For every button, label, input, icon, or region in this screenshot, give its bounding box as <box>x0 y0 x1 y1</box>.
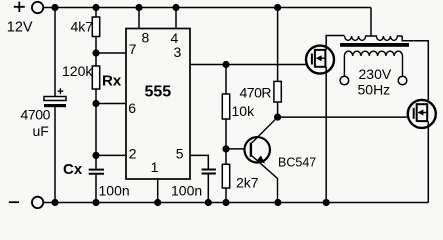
Q3 body arrow <box>421 112 428 114</box>
svg-text:470R: 470R <box>240 85 272 101</box>
wire: 4k7 top lead <box>95 8 97 18</box>
svg-text:50Hz: 50Hz <box>358 81 391 97</box>
svg-text:100n: 100n <box>99 182 130 198</box>
Q2 body arrow <box>319 57 326 59</box>
transformer T1 secondary winding <box>344 51 402 56</box>
plus sign <box>14 2 25 12</box>
node: pin 4 rail <box>172 4 179 11</box>
node A: 4k7/Rx/pin7 <box>92 49 99 56</box>
wire: node A to pin 7 <box>96 52 126 54</box>
svg-text:uF: uF <box>33 123 49 139</box>
wire: left vertical from + terminal to C1 top <box>54 8 56 97</box>
node: 470R top <box>274 4 281 11</box>
wire: 470R bottom to node D <box>277 102 279 117</box>
wire: pin 1 to bottom rail <box>157 179 159 203</box>
svg-text:BC547: BC547 <box>278 156 316 170</box>
Q2 gate bar <box>311 54 313 65</box>
wire: bottom 0V rail <box>44 202 428 204</box>
transistor Q1 BC547 <box>244 117 277 202</box>
Q3 body circle <box>408 100 436 128</box>
node: 10k/2k7/base <box>222 145 229 152</box>
Q3 gate bar <box>413 108 415 119</box>
wire: pin 5 to C3 <box>190 155 208 168</box>
wire: Cx bottom lead <box>95 175 97 203</box>
Q1 emitter <box>252 156 278 203</box>
svg-text:Cx: Cx <box>63 161 83 178</box>
node: C3 bottom <box>205 199 212 206</box>
wire: top +12V rail <box>44 7 372 9</box>
wire: secondary left lead <box>343 56 345 76</box>
svg-text:Rx: Rx <box>102 73 122 90</box>
wire: pin 4 to top rail <box>175 8 177 29</box>
svg-text:230V: 230V <box>359 66 392 82</box>
Q3 drain stub <box>417 103 428 105</box>
terminal secondary right <box>398 76 407 85</box>
node: Cx bottom <box>92 199 99 206</box>
minus sign <box>9 201 19 203</box>
transformer T1 core <box>340 43 409 47</box>
wire: Q2 drain to transformer primary left <box>326 36 344 50</box>
svg-text:2: 2 <box>129 146 137 162</box>
C1 polarity plus <box>58 88 64 94</box>
capacitor C1 4700uF bottom plate <box>44 104 66 107</box>
wire: Q2 source to bottom rail <box>325 67 327 203</box>
node: Q2 source bottom <box>323 199 330 206</box>
Q3 channel bar <box>416 103 418 122</box>
Q2 body circle <box>306 46 334 74</box>
node: pin 8 rail <box>135 4 142 11</box>
Q1 emitter arrow <box>257 156 264 163</box>
svg-text:6: 6 <box>128 100 136 116</box>
svg-text:7: 7 <box>129 41 137 57</box>
terminal secondary left <box>340 76 349 85</box>
wire: Rx bottom to node B <box>95 89 97 169</box>
svg-text:3: 3 <box>174 44 182 60</box>
op-amp U1 555 body <box>126 29 190 180</box>
capacitor C3 100n plates <box>202 170 216 174</box>
wire: C1 bottom to bottom rail <box>54 107 56 202</box>
node: pin1 bottom <box>154 199 161 206</box>
Q3 source stub <box>417 120 428 122</box>
Q2 right bar <box>324 49 326 68</box>
wire: C3 bottom lead <box>207 175 209 203</box>
wire: 10k top lead from pin3 node <box>225 65 227 95</box>
svg-text:4k7: 4k7 <box>71 19 94 35</box>
svg-text:1: 1 <box>151 159 159 175</box>
Q3 right bar <box>426 103 428 122</box>
wire: Q3 source to bottom rail <box>427 121 429 202</box>
svg-text:120k: 120k <box>62 63 93 79</box>
wire: node B to pin 6 <box>96 103 126 105</box>
Q1 collector <box>252 117 278 143</box>
wire: pin 3 output to Q2 gate <box>190 64 307 66</box>
Q2 drain stub <box>315 49 326 51</box>
resistor 4k7 <box>92 17 99 37</box>
node C: pin2 tap <box>92 152 99 159</box>
wire: pin 8 to top rail <box>138 8 140 29</box>
wire: 2k7 bottom lead <box>225 188 227 203</box>
svg-text:12V: 12V <box>7 19 33 35</box>
node: bottom terminal junction <box>51 199 58 206</box>
node: top terminal junction <box>51 4 58 11</box>
transformer T1 primary winding <box>345 36 403 40</box>
svg-text:555: 555 <box>145 84 172 101</box>
svg-text:4700: 4700 <box>21 106 51 122</box>
resistor 10k <box>222 94 229 119</box>
resistor 470R <box>274 81 281 102</box>
node: pin3/10k <box>222 61 229 68</box>
wire: 2k7 top lead <box>225 149 227 164</box>
Q1 base bar <box>250 143 252 157</box>
svg-text:8: 8 <box>142 29 150 45</box>
wire: base node to Q1 base <box>226 148 244 150</box>
Q2 source stub <box>315 66 326 68</box>
capacitor C1 4700uF top plate <box>44 97 66 101</box>
wire: node C to pin 2 <box>96 154 126 156</box>
node: emitter bottom <box>274 199 281 206</box>
resistor 2k7 <box>222 164 229 188</box>
terminal 0V <box>32 197 43 208</box>
capacitor Cx plates <box>89 170 104 174</box>
svg-text:2k7: 2k7 <box>236 175 259 191</box>
node D: 470R/collector/gate <box>274 114 281 121</box>
wire: 10k bottom to base node <box>225 119 227 149</box>
svg-text:10k: 10k <box>232 103 256 119</box>
node: 4k7 top <box>92 4 99 11</box>
Q2 channel bar <box>314 49 316 68</box>
wire: 4k7 bottom to node A <box>95 37 97 67</box>
wire: 470R top lead from +12V <box>277 8 279 82</box>
node: 2k7 bottom <box>222 199 229 206</box>
node B: Rx/Cx/pin6 <box>92 100 99 107</box>
transistor Q3 MOSFET <box>408 100 436 128</box>
wire: transformer centre tap to +12V <box>370 8 372 37</box>
resistor Rx 120k <box>92 66 99 89</box>
Q1 body circle <box>244 137 270 163</box>
wire: primary right end to Q3 drain <box>402 36 428 100</box>
wire: secondary right lead <box>402 56 404 76</box>
transistor Q2 MOSFET <box>306 46 334 74</box>
wire: node D to Q3 gate <box>278 116 408 118</box>
svg-text:100n: 100n <box>171 182 202 198</box>
svg-text:5: 5 <box>176 146 184 162</box>
terminal +12V <box>32 2 43 13</box>
